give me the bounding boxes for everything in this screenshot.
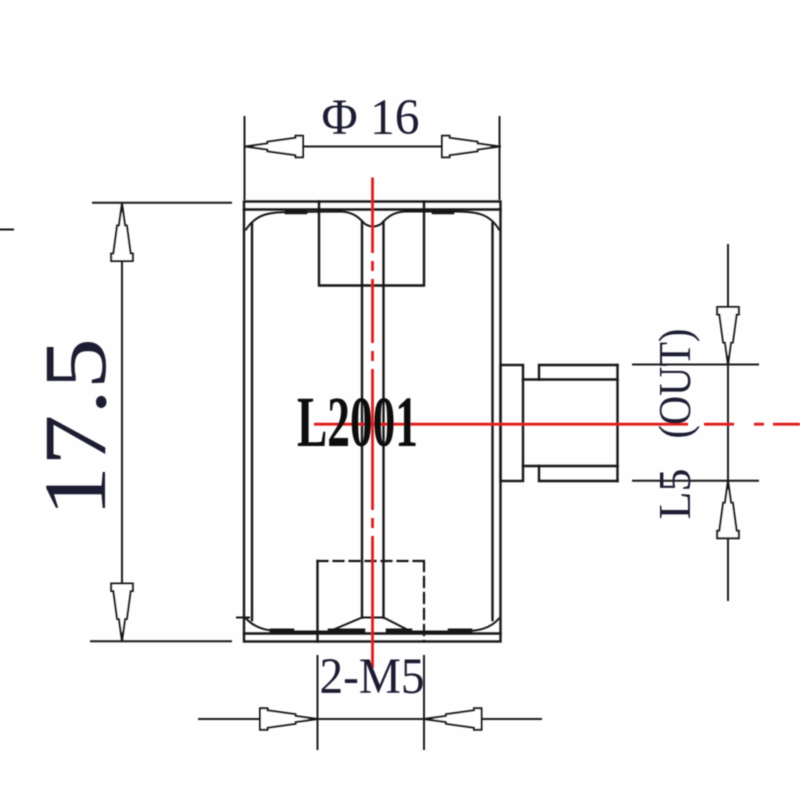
bottom dome curve with center chamfer xyxy=(246,618,499,632)
arrow 17.5 top xyxy=(111,204,133,262)
dim Φ16 left extension line xyxy=(244,117,246,199)
connector right end face xyxy=(616,365,618,481)
shaft column left line xyxy=(361,223,363,618)
dim 2-M5 dimension line xyxy=(199,718,541,720)
top weld tab left xyxy=(287,210,305,215)
stray tick left edge of image xyxy=(0,229,13,231)
svg-text:17.5: 17.5 xyxy=(27,338,125,517)
svg-text:Φ 16: Φ 16 xyxy=(322,90,420,146)
bottom weld tab far right xyxy=(450,629,470,634)
bottom magnet rectangle dashed right edge xyxy=(423,561,425,642)
arrow 2-M5 right xyxy=(424,708,482,730)
dim 17.5 dimension line xyxy=(121,203,123,641)
connector barrel bottom line xyxy=(523,465,618,467)
dim 2-M5 left extension line xyxy=(317,656,319,749)
dim L5 dimension line xyxy=(727,245,729,600)
dim L5 bottom extension line xyxy=(633,480,758,482)
bottom magnet rectangle dashed top edge xyxy=(318,560,425,562)
bottom weld tab center-right xyxy=(388,629,410,634)
dim 2-M5 right extension line xyxy=(423,656,425,749)
arrow Φ16 left xyxy=(246,136,304,158)
arrow L5 bottom xyxy=(717,481,739,539)
top cap inner line xyxy=(244,208,501,210)
red vertical centerline xyxy=(371,178,374,669)
body outer case xyxy=(244,202,501,642)
bottom cap inner line xyxy=(244,632,501,634)
svg-text:2-M5: 2-M5 xyxy=(320,649,425,705)
arrow Φ16 right xyxy=(442,136,500,158)
top magnet rectangle xyxy=(319,202,424,286)
arrow 17.5 bottom xyxy=(111,584,133,642)
dim 17.5 top extension line xyxy=(93,202,231,204)
dim 17.5 bottom extension line xyxy=(91,640,231,642)
left inner wall xyxy=(251,224,253,621)
bottom weld tab far left xyxy=(272,629,292,634)
dim L5 top extension line xyxy=(633,364,758,366)
dim Φ16 right extension line xyxy=(499,117,501,199)
bottom weld tab center-left xyxy=(330,629,363,634)
red horizontal centerline xyxy=(314,423,800,426)
connector flange rectangle xyxy=(501,365,524,481)
arrow L5 top xyxy=(717,307,739,365)
right inner wall xyxy=(491,224,493,621)
svg-text:L2001: L2001 xyxy=(297,382,418,462)
top dome curve xyxy=(246,212,499,230)
svg-text:(OUT): (OUT) xyxy=(649,329,700,439)
top weld tab right xyxy=(434,210,452,215)
svg-text:L5: L5 xyxy=(649,468,700,519)
connector top step xyxy=(539,365,618,380)
connector barrel top line xyxy=(523,378,618,380)
connector bottom step xyxy=(539,466,618,481)
stray tick on left wall near bottom xyxy=(237,617,249,619)
arrow 2-M5 left xyxy=(260,708,318,730)
bottom magnet rectangle solid left edge xyxy=(316,561,318,642)
dim Φ16 dimension line xyxy=(245,146,500,148)
shaft column right line xyxy=(382,223,384,618)
